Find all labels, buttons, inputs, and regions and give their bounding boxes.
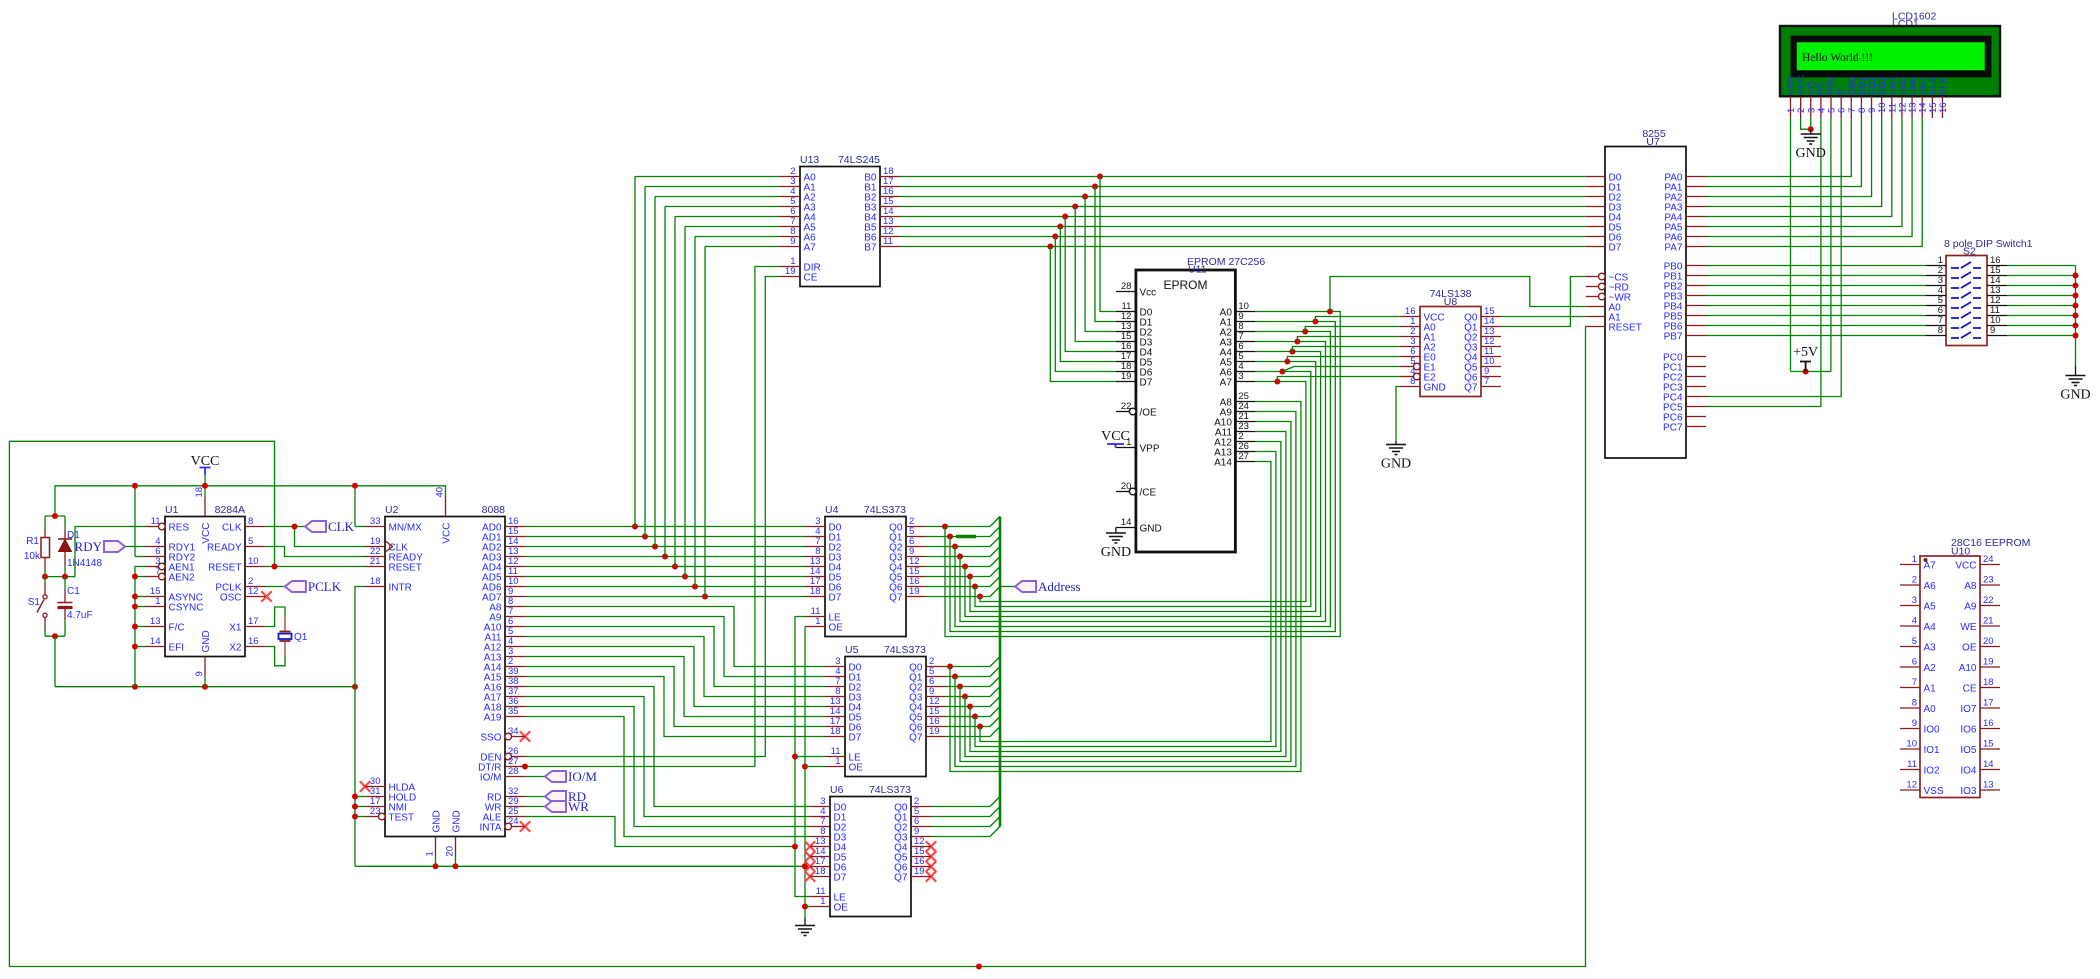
wire U8 GND to ground (1396, 387, 1400, 445)
wire A8 U2 to U5 D0 (525, 607, 825, 667)
no-connect U6 D4-D7 (805, 841, 815, 881)
svg-text:WE: WE (1960, 622, 1976, 633)
svg-text:U11: U11 (1188, 264, 1207, 276)
resistor R1 10k (24, 536, 50, 577)
svg-text:OE: OE (1962, 643, 1977, 654)
junction VCC rail dots (132, 483, 358, 489)
svg-text:1: 1 (815, 616, 820, 627)
wire A11 U2 to U5 D3 (525, 637, 825, 697)
svg-text:U2: U2 (385, 504, 399, 516)
svg-text:22: 22 (1121, 401, 1132, 412)
wire AD4 net U2/U4/U13 (525, 217, 805, 570)
svg-text:PCLK: PCLK (308, 579, 342, 594)
svg-text:RDY: RDY (75, 539, 103, 554)
svg-text:11: 11 (1907, 759, 1917, 770)
wire DIP switch pin 16 to ground rail (2007, 265, 2076, 267)
wire PB7 8255 to DIP switch pin 8 (1706, 335, 1926, 337)
svg-text:CE: CE (1963, 684, 1977, 695)
svg-text:17: 17 (1983, 698, 1994, 709)
svg-text:GND: GND (1140, 524, 1162, 535)
wire address A0 net U4 Q0 to EPROM/U8 (926, 277, 1586, 637)
svg-text:6: 6 (1912, 657, 1917, 668)
ground symbol below LCD (1796, 134, 1826, 161)
svg-text:14: 14 (1983, 759, 1994, 770)
svg-text:BLK: BLK (1938, 76, 1949, 95)
svg-text:B7: B7 (864, 243, 877, 254)
svg-text:A19: A19 (484, 713, 502, 724)
svg-text:CSYNC: CSYNC (169, 603, 204, 614)
net flag IO/M (525, 769, 597, 784)
svg-text:74LS373: 74LS373 (869, 784, 911, 796)
svg-text:24: 24 (1983, 554, 1994, 565)
svg-text:1: 1 (425, 851, 436, 856)
wire LCD VCC/VO to ground (1801, 118, 1814, 134)
svg-text:D7: D7 (1609, 243, 1622, 254)
svg-text:D7: D7 (829, 593, 842, 604)
address bus vertical (999, 517, 1002, 827)
svg-text:14: 14 (150, 636, 161, 647)
svg-text:CLK: CLK (222, 523, 242, 534)
wire DIP switch pin 15 to ground rail (2007, 275, 2076, 277)
svg-text:A7: A7 (1924, 561, 1937, 572)
power flag VCC (U1) (191, 454, 220, 475)
wire PA2 8255 to LCD DB2 (1706, 118, 1872, 197)
svg-text:GND: GND (201, 630, 212, 652)
wire address A6 net U4 Q6 to EPROM/U8 (926, 367, 1400, 607)
svg-text:15: 15 (1983, 739, 1994, 750)
svg-text:SSO: SSO (480, 733, 501, 744)
svg-text:D7: D7 (834, 873, 847, 884)
wire address A12 net U5 Q4 (946, 442, 1281, 752)
wire 8255 PC4 to LCD E (1706, 118, 1841, 397)
svg-text:1: 1 (1126, 437, 1131, 448)
svg-text:VCC: VCC (442, 523, 453, 544)
svg-text:8: 8 (1938, 325, 1943, 336)
wire AD7 net U2/U4/U13 (525, 247, 805, 600)
wire bottom node R1/D1/RES (42, 527, 145, 580)
wire address A14 net U5 Q6 (946, 462, 1271, 742)
svg-text:IO/M: IO/M (480, 773, 502, 784)
svg-text:18: 18 (815, 866, 826, 877)
no-connect OSC (261, 591, 271, 601)
svg-text:U10: U10 (1951, 546, 1970, 558)
wire DIP switch pin 12 to ground rail (2007, 305, 2076, 307)
svg-text:40: 40 (435, 487, 446, 498)
net flag CLK (305, 519, 355, 534)
no-connect INTA (520, 821, 530, 831)
no-connect HLDA (360, 781, 370, 791)
no-connect SSO (520, 731, 530, 741)
wire U8 Q0 to 8255 A1 (1501, 316, 1586, 318)
wire address A2 net U4 Q2 to EPROM/U8 (926, 327, 1400, 627)
svg-text:U5: U5 (845, 644, 859, 656)
svg-text:1: 1 (835, 756, 840, 767)
svg-text:A8: A8 (1964, 581, 1977, 592)
svg-text:INTR: INTR (389, 583, 412, 594)
wire AD5 net U2/U4/U13 (525, 227, 805, 580)
wire address A16 net U6 Q0 bus entry (931, 797, 1000, 807)
wire DEN to U13 CE (525, 277, 780, 757)
wire address A10 net U5 Q2 (946, 422, 1291, 762)
wire A18 U2 to U6 D2 (525, 707, 810, 827)
svg-text:Address: Address (1038, 579, 1081, 594)
wire address A18 net U6 Q2 bus entry (931, 817, 1000, 827)
wire PB1 8255 to DIP switch pin 2 (1706, 275, 1926, 277)
wire PA6 8255 to LCD DB6 (1706, 118, 1912, 237)
LCD display LCD1 LCD1602 (1780, 11, 2000, 119)
8255 U7 (1586, 128, 1706, 458)
svg-text:WR: WR (568, 799, 589, 814)
svg-text:OE: OE (834, 903, 849, 914)
svg-text:A2: A2 (1924, 663, 1937, 674)
svg-text:X1: X1 (229, 623, 242, 634)
svg-text:A6: A6 (1924, 581, 1937, 592)
svg-text:1N4148: 1N4148 (67, 558, 102, 569)
svg-text:IO2: IO2 (1924, 766, 1941, 777)
svg-text:AEN2: AEN2 (169, 573, 196, 584)
wire PB3 8255 to DIP switch pin 4 (1706, 295, 1926, 297)
net flag RD (525, 789, 586, 804)
74LS373 U4 (805, 504, 926, 637)
svg-text:28: 28 (508, 766, 519, 777)
EPROM U11 27C256 (1116, 256, 1265, 552)
svg-text:U4: U4 (825, 504, 839, 516)
wire AD6 net U2/U4/U13 (525, 237, 805, 590)
svg-text:A9: A9 (1964, 602, 1977, 613)
svg-text:5: 5 (1912, 636, 1917, 647)
svg-text:35: 35 (508, 706, 519, 717)
wire A16 U2 to U6 D0 (525, 687, 810, 807)
svg-text:12: 12 (248, 586, 259, 597)
svg-text:5: 5 (248, 536, 253, 547)
svg-text:13: 13 (150, 616, 161, 627)
wire A10 U2 to U5 D2 (525, 627, 825, 687)
svg-text:X2: X2 (229, 643, 242, 654)
wire DT/R to U13 DIR (522, 267, 780, 770)
wire PB6 8255 to DIP switch pin 7 (1706, 325, 1926, 327)
svg-text:IO0: IO0 (1924, 725, 1941, 736)
svg-text:11: 11 (151, 516, 161, 527)
wire address A8 net U5 Q0 (946, 402, 1301, 772)
svg-text:8 pole DIP Switch1: 8 pole DIP Switch1 (1944, 238, 2033, 250)
wire PA1 8255 to LCD DB1 (1706, 118, 1861, 187)
svg-text:27: 27 (1238, 451, 1249, 462)
wire INTR/HOLD/NMI/TEST ground column (352, 587, 365, 867)
wire AD3 net U2/U4/U13 (525, 207, 805, 560)
wire OE column U4/U5/U6 to ground (802, 627, 825, 926)
svg-text:CE: CE (804, 273, 818, 284)
svg-text:F/C: F/C (169, 623, 185, 634)
svg-text:U13: U13 (800, 154, 819, 166)
wire address A4 net U4 Q4 to EPROM/U8 (926, 347, 1400, 617)
wire data D2 net U13 B2 to EPROM/8255 (900, 194, 1586, 332)
svg-text:PB7: PB7 (1664, 332, 1683, 343)
svg-text:GND: GND (1101, 545, 1131, 560)
wire A15 U2 to U5 D7 (525, 677, 825, 737)
wire A17 U2 to U6 D1 (525, 697, 810, 817)
svg-text:Hello World !!!: Hello World !!! (1802, 52, 1873, 64)
wire S1/C1 bottom node to GND rail (45, 633, 65, 687)
wire PB5 8255 to DIP switch pin 6 (1706, 315, 1926, 317)
svg-text:PC7: PC7 (1663, 423, 1683, 434)
svg-text:D7: D7 (849, 733, 862, 744)
svg-text:PA7: PA7 (1664, 243, 1683, 254)
svg-text:RESET: RESET (1609, 323, 1642, 334)
svg-text:C1: C1 (67, 586, 80, 597)
EEPROM U10 28C16 (1900, 537, 2030, 798)
svg-text:13: 13 (1983, 780, 1994, 791)
svg-text:4: 4 (1912, 616, 1917, 627)
bus segment on U4 Q1 row (956, 535, 976, 538)
svg-text:EPROM: EPROM (1163, 278, 1207, 292)
svg-text:16: 16 (1938, 102, 1949, 113)
wire AEN/ASYNC/CSYNC/F-C/EFI ground column (132, 567, 145, 687)
ground symbol below DIP switch (2060, 376, 2090, 403)
wire address A1 net U4 Q1 to EPROM/U8 (926, 317, 1400, 632)
svg-text:/CE: /CE (1140, 488, 1157, 499)
svg-text:22: 22 (1983, 595, 1994, 606)
wire DIP switch pin 13 to ground rail (2007, 295, 2076, 297)
svg-text:IO7: IO7 (1960, 704, 1977, 715)
svg-text:VCC: VCC (1955, 561, 1976, 572)
svg-text:IO/M: IO/M (568, 769, 597, 784)
crystal Q1 (265, 607, 308, 666)
svg-text:S2: S2 (1963, 246, 1976, 258)
svg-text:19: 19 (929, 726, 940, 737)
clock input mark U2 CLK (386, 542, 393, 552)
svg-text:9: 9 (790, 236, 795, 247)
svg-text:R1: R1 (26, 536, 39, 547)
svg-text:TEST: TEST (389, 813, 415, 824)
74LS373 U5 (825, 644, 946, 777)
svg-text:IO5: IO5 (1960, 745, 1977, 756)
svg-text:8284A: 8284A (215, 504, 245, 516)
wire LCD VSS/RW to +5V (1791, 118, 1831, 375)
wire READY U1-U2 (265, 547, 365, 557)
wire AD2 net U2/U4/U13 (525, 197, 805, 550)
svg-text:A0: A0 (1924, 704, 1937, 715)
svg-text:VSS: VSS (1924, 786, 1944, 797)
svg-text:7: 7 (1912, 677, 1917, 688)
capacitor C1 4.7uF (58, 577, 93, 637)
svg-text:Q7: Q7 (1464, 383, 1478, 394)
svg-text:U6: U6 (830, 784, 844, 796)
wire A19 U2 to U6 D3 (525, 717, 810, 837)
net flag WR (525, 799, 589, 814)
svg-text:18: 18 (810, 586, 821, 597)
svg-text:19: 19 (914, 866, 925, 877)
wire R1/D1 top node (45, 513, 65, 539)
svg-text:OE: OE (849, 763, 864, 774)
svg-text:1: 1 (1912, 554, 1917, 565)
svg-text:10k: 10k (24, 551, 41, 562)
wire data D6 net U13 B6 to EPROM/8255 (900, 234, 1586, 372)
wire DIP switch pin 11 to ground rail (2007, 315, 2076, 317)
no-connect U6 Q4-Q7 (926, 841, 936, 881)
svg-text:Q7: Q7 (889, 593, 903, 604)
svg-text:18: 18 (830, 726, 841, 737)
ground symbol below EPROM (1101, 528, 1131, 561)
wire DIP switch pin 10 to ground rail (2007, 325, 2076, 327)
svg-text:7: 7 (1484, 376, 1489, 387)
svg-text:GND: GND (432, 810, 443, 832)
wire address A15 net U5 Q7 (946, 727, 1000, 737)
wire A13 U2 to U5 D5 (525, 657, 825, 717)
svg-text:8: 8 (1410, 376, 1415, 387)
svg-text:VCC: VCC (201, 523, 212, 544)
svg-text:EFI: EFI (169, 643, 185, 654)
svg-text:28: 28 (1121, 281, 1132, 292)
svg-text:8: 8 (248, 516, 253, 527)
wire U2 GND rail (355, 857, 808, 870)
svg-text:IO3: IO3 (1960, 786, 1977, 797)
svg-text:U1: U1 (165, 504, 179, 516)
wire AD1 net U2/U4/U13 (525, 187, 805, 540)
wire PA3 8255 to LCD DB3 (1706, 118, 1882, 207)
wire A9 U2 to U5 D1 (525, 617, 825, 677)
8088 U2 (365, 487, 525, 857)
svg-text:Q7: Q7 (894, 873, 908, 884)
svg-text:A14: A14 (1214, 458, 1232, 469)
74LS373 U6 (810, 784, 931, 917)
wire DIP ground rail with junctions (2073, 266, 2079, 376)
svg-text:U7: U7 (1646, 136, 1660, 148)
net flag Address bus (1000, 579, 1081, 594)
svg-text:11: 11 (883, 236, 893, 247)
wire data D4 net U13 B4 to EPROM/8255 (900, 214, 1586, 352)
svg-text:MN/MX: MN/MX (389, 523, 423, 534)
diode D1 1N4148 (58, 530, 102, 577)
svg-text:OE: OE (829, 623, 844, 634)
svg-text:9: 9 (194, 671, 205, 676)
svg-text:Vcc: Vcc (1140, 288, 1157, 299)
svg-text:17: 17 (248, 616, 259, 627)
svg-text:2: 2 (1912, 575, 1917, 586)
svg-text:16: 16 (1983, 718, 1994, 729)
wire address A7 net U4 Q7 to EPROM/U8 (926, 377, 1400, 602)
wire RESET net with border loop (9, 327, 1585, 970)
svg-text:1: 1 (820, 896, 825, 907)
wire PB2 8255 to DIP switch pin 3 (1706, 285, 1926, 287)
DIP switch S2 8 pole (1926, 238, 2033, 346)
wire LE column U4/U5/U6 (792, 617, 825, 897)
wire ALE to latch LE column (525, 817, 795, 847)
wire 8255 PC5 to LCD RS (1706, 118, 1821, 407)
svg-text:9: 9 (1912, 718, 1917, 729)
svg-text:20: 20 (1121, 481, 1132, 492)
wire U1 GND rail (55, 677, 358, 690)
wire AD0 net U2/U4/U13 (525, 177, 805, 530)
wire A14 U2 to U5 D6 (525, 667, 825, 727)
wire VCC rail (55, 474, 446, 557)
svg-text:Q7: Q7 (909, 733, 923, 744)
svg-text:Q1: Q1 (294, 632, 308, 643)
svg-text:GND: GND (2060, 388, 2090, 403)
svg-text:16: 16 (248, 636, 259, 647)
svg-text:8088: 8088 (482, 504, 506, 516)
svg-text:RESET: RESET (208, 563, 241, 574)
svg-text:RESET: RESET (389, 563, 422, 574)
svg-text:GND: GND (1381, 457, 1411, 472)
wire data D0 net U13 B0 to EPROM/8255 (900, 174, 1586, 312)
wire data D1 net U13 B1 to EPROM/8255 (900, 184, 1586, 322)
svg-text:7: 7 (155, 566, 160, 577)
svg-text:GND: GND (452, 810, 463, 832)
svg-text:23: 23 (370, 806, 381, 817)
svg-text:IO6: IO6 (1960, 725, 1977, 736)
svg-text:74LS373: 74LS373 (884, 644, 926, 656)
svg-text:A4: A4 (1924, 622, 1937, 633)
8284A U1 (145, 487, 265, 677)
svg-text:12: 12 (1906, 780, 1917, 791)
wire data D5 net U13 B5 to EPROM/8255 (900, 224, 1586, 362)
wire PA7 8255 to LCD DB7 (1706, 118, 1922, 247)
svg-text:19: 19 (785, 266, 796, 277)
svg-text:19: 19 (909, 586, 920, 597)
net flag RDY (75, 539, 145, 554)
svg-text:+5V: +5V (1793, 345, 1818, 360)
wire CLK net (265, 524, 365, 547)
ground symbol below U8 (1381, 445, 1411, 472)
wire PB0 8255 to DIP switch pin 1 (1706, 265, 1926, 267)
svg-text:10: 10 (1906, 739, 1917, 750)
svg-text:14: 14 (1121, 517, 1132, 528)
svg-text:D7: D7 (1140, 378, 1153, 389)
wire DIP switch pin 14 to ground rail (2007, 285, 2076, 287)
svg-text:74LS245: 74LS245 (838, 154, 880, 166)
svg-text:/OE: /OE (1140, 408, 1158, 419)
svg-text:IO4: IO4 (1960, 766, 1977, 777)
svg-text:24: 24 (508, 816, 519, 827)
svg-text:8: 8 (1912, 698, 1917, 709)
wire PA0 8255 to LCD DB0 (1706, 118, 1851, 177)
svg-text:3: 3 (1238, 371, 1243, 382)
ground symbol below U6 (795, 926, 815, 936)
svg-text:CLK: CLK (328, 519, 355, 534)
wire address A5 net U4 Q5 to EPROM/U8 (926, 357, 1400, 612)
svg-text:A10: A10 (1959, 663, 1977, 674)
svg-text:READY: READY (207, 543, 242, 554)
svg-text:10: 10 (248, 556, 259, 567)
svg-text:20: 20 (445, 846, 456, 857)
74LS138 U8 (1400, 288, 1501, 397)
svg-text:INTA: INTA (479, 823, 501, 834)
svg-text:18: 18 (1983, 677, 1994, 688)
svg-text:GND: GND (1424, 383, 1446, 394)
svg-text:GND: GND (1796, 146, 1826, 161)
svg-text:9: 9 (1990, 325, 1995, 336)
svg-text:A3: A3 (1924, 643, 1937, 654)
svg-text:23: 23 (1983, 575, 1994, 586)
wire address A13 net U5 Q5 (946, 452, 1276, 747)
svg-text:A7: A7 (804, 243, 817, 254)
svg-text:OSC: OSC (220, 593, 242, 604)
wire DIP switch pin 9 to ground rail (2007, 335, 2076, 337)
svg-text:3: 3 (1912, 595, 1917, 606)
wire data D7 net U13 B7 to EPROM/8255 (900, 244, 1586, 382)
svg-text:74LS373: 74LS373 (864, 504, 906, 516)
svg-text:34: 34 (508, 726, 519, 737)
wire PA5 8255 to LCD DB5 (1706, 118, 1902, 227)
svg-text:19: 19 (1983, 657, 1994, 668)
wire address A19 net U6 Q3 bus entry (931, 827, 1000, 837)
wire address A3 net U4 Q3 to EPROM/U8 (926, 337, 1400, 622)
svg-text:21: 21 (1983, 616, 1994, 627)
net flag PCLK (265, 579, 342, 594)
svg-text:21: 21 (370, 556, 381, 567)
svg-text:20: 20 (1983, 636, 1994, 647)
svg-text:S1: S1 (28, 597, 41, 608)
